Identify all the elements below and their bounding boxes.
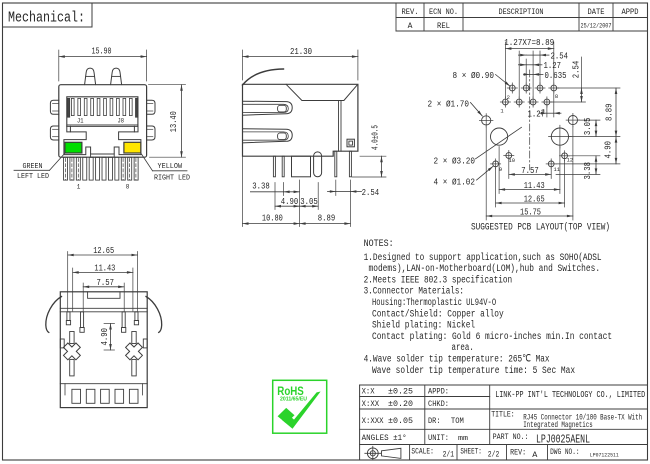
svg-text:J1: J1 [77, 118, 84, 125]
front view lower cavity steps [67, 126, 71, 132]
pcb hole 11 [548, 161, 554, 167]
side view latch slot upper [243, 101, 293, 115]
svg-text:SUGGESTED PCB LAYOUT(TOP VIEW): SUGGESTED PCB LAYOUT(TOP VIEW) [471, 222, 610, 234]
revision table grid [395, 3, 397, 31]
svg-text:1.27X7=8.89: 1.27X7=8.89 [504, 38, 554, 48]
svg-text:8.89: 8.89 [318, 213, 336, 223]
side view rear pin 2 [349, 151, 351, 177]
RoHS logo box [273, 380, 327, 433]
front view dim 13.40 extension lines [149, 84, 186, 86]
svg-text:DR:: DR: [428, 416, 441, 426]
svg-text:2.54: 2.54 [362, 188, 380, 198]
pcb dim 1.27X7=8.89 dimension line [505, 48, 553, 50]
pcb pin hole 5 [530, 99, 536, 105]
svg-text:8: 8 [126, 184, 130, 191]
bottom view side notch right [143, 339, 147, 348]
pcb dim 3.38 right vertical [569, 155, 601, 157]
svg-text:CHKD:: CHKD: [428, 399, 449, 409]
svg-text:area.: area. [452, 343, 474, 354]
pcb dim 0.635 top [524, 73, 530, 75]
pcb dim 3.05 right vertical [578, 119, 600, 121]
svg-text:mm: mm [458, 435, 469, 443]
svg-text:LEFT LED: LEFT LED [17, 173, 49, 181]
bottom view pin outer-left [67, 312, 70, 321]
bottom view pin inner-right [122, 312, 125, 328]
svg-text:X:X: X:X [362, 386, 375, 396]
leader to pin hole 2 [496, 75, 511, 87]
title block grid [359, 385, 361, 460]
pcb hole 10 [506, 153, 512, 159]
svg-text:GREEN: GREEN [23, 163, 43, 171]
svg-text:J8: J8 [118, 118, 125, 125]
svg-text:8.89: 8.89 [605, 104, 615, 122]
front view side latch ear upper-right [147, 100, 155, 114]
side view bottom dim extension lines [242, 156, 244, 226]
bottom view shaft below right post [132, 359, 136, 376]
bottom view comb top line [60, 383, 147, 385]
svg-text:11.43: 11.43 [94, 263, 115, 273]
svg-text:TOM: TOM [451, 416, 464, 426]
pcb dim 4.90 right vertical [556, 163, 620, 165]
pcb pin hole 3 [516, 99, 522, 105]
side view rear pin 1 [335, 151, 337, 177]
svg-text:APPD:: APPD: [428, 386, 449, 396]
bottom view shield fold line [60, 307, 147, 309]
bottom view top notch [88, 292, 120, 299]
front view contact teeth [71, 98, 74, 115]
svg-text:3.Connector Materials:: 3.Connector Materials: [364, 286, 464, 298]
front view side latch ear lower-right [147, 126, 155, 140]
svg-text:10.80: 10.80 [262, 213, 283, 223]
side view top chamfer face [286, 84, 357, 100]
front view LED lead dashed lines [65, 159, 67, 180]
side view dim 4.0±0.5 [360, 155, 386, 157]
svg-text:2011/65/EU: 2011/65/EU [280, 396, 307, 402]
svg-text:NOTES:: NOTES: [364, 239, 394, 250]
side view grounding wire finger [243, 69, 284, 85]
leader to left 1.70 hole [471, 103, 483, 117]
front view dim 15.90 dimension line [59, 56, 147, 58]
svg-text:DESCRIPTION: DESCRIPTION [499, 8, 544, 17]
svg-text:12.65: 12.65 [93, 246, 114, 256]
svg-text:8 × Ø0.90: 8 × Ø0.90 [453, 71, 495, 81]
svg-text:2/2: 2/2 [488, 449, 500, 459]
pcb pin hole 6 [537, 85, 543, 91]
svg-text:ECN NO.: ECN NO. [429, 8, 458, 17]
pcb hole 9 [493, 161, 499, 167]
front view top post right [111, 68, 122, 85]
svg-text:PART NO.:: PART NO.: [493, 432, 529, 442]
svg-text:Shield plating: Nickel: Shield plating: Nickel [372, 320, 475, 332]
front view contact comb side wall left [67, 98, 69, 117]
side view dim 21.30 extension lines [242, 50, 244, 80]
LED window green left [65, 142, 82, 153]
svg-text:REV:: REV: [510, 448, 526, 458]
svg-text:RIGHT LED: RIGHT LED [154, 175, 190, 183]
leader line to yellow LED [141, 153, 153, 171]
title label box Mechanical [3, 3, 93, 27]
svg-text:APPD: APPD [622, 8, 639, 17]
svg-text:12: 12 [567, 157, 574, 164]
svg-text:4.Wave solder tip temperature:: 4.Wave solder tip temperature: 265℃ Max [364, 354, 550, 366]
svg-text:REL: REL [437, 22, 450, 31]
pcb hole 12 [562, 153, 568, 159]
svg-text:±0.20: ±0.20 [388, 399, 413, 409]
svg-text:4.90: 4.90 [100, 328, 110, 346]
svg-text:4.0±0.5: 4.0±0.5 [371, 125, 381, 150]
svg-text:21.30: 21.30 [290, 47, 312, 57]
bottom view locating post left (cross) [59, 339, 84, 364]
side view shield body outline [243, 84, 358, 156]
svg-text:X:XXX: X:XXX [362, 416, 384, 426]
leader through Ø3.20 left hole [476, 127, 522, 159]
pcb pin hole 4 [523, 85, 529, 91]
svg-text:UNIT:: UNIT: [428, 433, 449, 443]
bottom view body outline [60, 292, 147, 408]
svg-text:REV.: REV. [402, 8, 419, 17]
bottom view spring wire right [146, 297, 162, 333]
svg-text:SCALE:: SCALE: [411, 446, 434, 456]
svg-text:A: A [532, 450, 538, 460]
svg-text:2 × Ø1.70: 2 × Ø1.70 [428, 99, 470, 109]
front view shelf line [67, 124, 138, 126]
svg-text:3.38: 3.38 [583, 162, 593, 180]
leader to hole 9 [477, 166, 494, 180]
svg-text:13.40: 13.40 [169, 111, 179, 132]
svg-text:10: 10 [509, 157, 516, 164]
svg-text:4.90: 4.90 [281, 197, 299, 207]
svg-text:YELLOW: YELLOW [158, 163, 183, 171]
LED window yellow right [124, 142, 141, 153]
side view latch slot lower [243, 129, 293, 143]
svg-text:LP07122511: LP07122511 [590, 453, 619, 459]
pcb pin hole 1 [503, 99, 509, 105]
svg-text:DATE: DATE [588, 8, 605, 17]
svg-text:LINK-PP INT'L TECHNOLOGY CO.,: LINK-PP INT'L TECHNOLOGY CO., LIMITED [495, 389, 645, 400]
front view shield body outline [59, 85, 147, 158]
bottom view pin outer-right [135, 312, 138, 321]
pcb pin hole 7 [544, 99, 550, 105]
front view side latch ear lower-left [50, 126, 58, 140]
pcb hole Ø1.70 right [568, 116, 577, 125]
pcb dim 1.27 top [518, 64, 526, 66]
svg-text:2.Meets IEEE 802.3 specificati: 2.Meets IEEE 802.3 specification [364, 274, 513, 286]
pcb dim 2.54 top [518, 54, 526, 56]
svg-text:modems),LAN-on-Motherboard(LOM: modems),LAN-on-Motherboard(LOM),hub and … [369, 263, 601, 275]
svg-text:15.90: 15.90 [92, 47, 112, 57]
bottom view shaft above right post [132, 332, 136, 344]
pcb center line dash-dot [529, 70, 531, 170]
projection cone symbol [382, 448, 401, 458]
svg-text:Housing:Thermoplastic UL94V-O: Housing:Thermoplastic UL94V-O [372, 297, 496, 309]
svg-text:3.05: 3.05 [300, 197, 318, 207]
svg-text:Contact/Shield: Copper alloy: Contact/Shield: Copper alloy [372, 308, 504, 320]
bottom view dim 4.90 [104, 323, 115, 325]
svg-text:1.Designed to support applicat: 1.Designed to support application,such a… [364, 252, 602, 264]
svg-text:2.54: 2.54 [551, 51, 569, 61]
third angle projection symbol [367, 448, 378, 459]
front view dim 15.90 extension lines [58, 50, 60, 81]
svg-text:2: 2 [507, 94, 510, 101]
svg-text:X:XX: X:XX [362, 399, 380, 409]
svg-text:±0.25: ±0.25 [388, 386, 413, 396]
svg-text:Mechanical:: Mechanical: [8, 10, 85, 27]
leader line to green LED [50, 153, 65, 170]
svg-text:1.27: 1.27 [528, 109, 546, 119]
pcb pin hole 2 [509, 85, 515, 91]
front view dim 13.40 dimension line [181, 85, 183, 158]
bottom view comb slots [72, 389, 81, 403]
svg-text:DWG NO.:: DWG NO.: [550, 447, 580, 457]
bottom view spring wire left [46, 297, 62, 333]
svg-text:SHEET:: SHEET: [460, 446, 482, 456]
pcb hole Ø3.20 right [551, 128, 568, 145]
svg-text:3.05: 3.05 [583, 118, 593, 135]
svg-text:Integrated Magnetics: Integrated Magnetics [523, 421, 593, 430]
svg-text:4 × Ø1.02: 4 × Ø1.02 [434, 177, 476, 187]
side view EMI hairpin finger [314, 152, 322, 177]
side view dim 21.30 dimension line [243, 56, 358, 58]
svg-text:LPJ0025AENL: LPJ0025AENL [536, 433, 590, 447]
svg-text:0.635: 0.635 [545, 71, 567, 81]
svg-text:TITLE:: TITLE: [491, 410, 515, 420]
side view plastic post block [292, 156, 311, 177]
front view solder pins row [64, 157, 68, 180]
pcb pin hole 8 [551, 85, 557, 91]
front view contact comb side wall right [136, 98, 138, 117]
svg-text:8: 8 [555, 93, 558, 100]
svg-text:25/12/2007: 25/12/2007 [581, 23, 612, 30]
svg-text:3.38: 3.38 [252, 181, 270, 191]
svg-text:ANGLES ±1°: ANGLES ±1° [362, 433, 407, 443]
pcb dim 2.54 right vertical [581, 57, 583, 88]
RoHS checkmark [278, 408, 295, 424]
bottom view locating post right (cross) [122, 339, 147, 364]
front view center plug slot [91, 154, 115, 157]
front view jack opening [67, 97, 138, 127]
side view rear seam lines [338, 101, 340, 152]
pcb hole Ø3.20 left [491, 128, 508, 145]
front view top post left [85, 68, 96, 85]
side view front pin 1 [273, 156, 275, 177]
bottom view side notch left [60, 339, 64, 348]
bottom view shaft above left post [70, 332, 74, 344]
pcb top extension lines [504, 42, 506, 98]
side view rear square hole [347, 139, 354, 147]
svg-text:2.54: 2.54 [571, 61, 581, 79]
pcb dim 8.89 right vertical [558, 87, 621, 89]
svg-text:1: 1 [77, 184, 81, 191]
side view front pin 2 [282, 156, 284, 177]
svg-text:4.90: 4.90 [604, 141, 614, 159]
bottom view shaft below left post [70, 359, 74, 376]
svg-text:Wave solder tip temperature ti: Wave solder tip temperature time: 5 Sec … [372, 365, 575, 377]
svg-text:2/1: 2/1 [443, 449, 455, 459]
pcb hole Ø1.70 left [482, 116, 491, 125]
front view side latch ear upper-left [50, 100, 58, 114]
svg-text:2 × Ø3.20: 2 × Ø3.20 [434, 156, 476, 166]
svg-text:Contact plating: Gold 6 micro-: Contact plating: Gold 6 micro-inches min… [372, 331, 612, 343]
svg-text:1.27: 1.27 [544, 61, 562, 71]
svg-text:A: A [408, 22, 413, 31]
svg-text:±0.05: ±0.05 [388, 416, 413, 426]
bottom view pin inner-left [81, 312, 84, 328]
